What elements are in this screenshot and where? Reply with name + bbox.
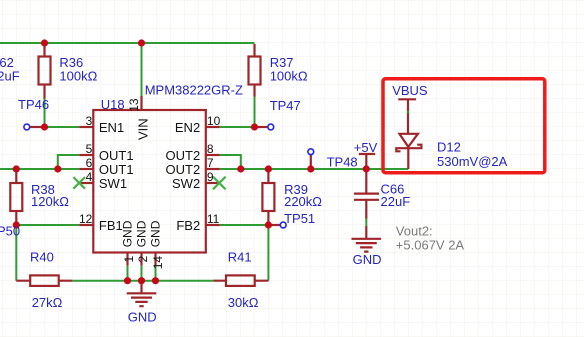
pin 1 GND (126, 253, 128, 266)
node TP46/EN1 (41, 123, 48, 130)
svg-text:10: 10 (207, 114, 221, 128)
resistor R38 (10, 169, 22, 225)
ground symbol IC GND (127, 281, 157, 307)
supply +5V symbol (359, 154, 375, 169)
svg-text:MPM38222GR-Z: MPM38222GR-Z (145, 82, 243, 97)
pin 7 OUT2 (206, 168, 220, 170)
svg-text:SW1: SW1 (99, 176, 127, 191)
svg-text:TP50: TP50 (0, 224, 20, 239)
pin 6 OUT1 (79, 168, 93, 170)
resistor R41 (213, 275, 268, 286)
resistor R39 (262, 169, 274, 225)
svg-text:GND: GND (353, 252, 382, 267)
pin 2 GND (140, 253, 142, 266)
test point TP47 (255, 126, 268, 128)
svg-text:22uF: 22uF (0, 69, 20, 84)
node GND pin14 (152, 277, 159, 284)
wire FB1 row (16, 224, 79, 226)
svg-text:12: 12 (79, 212, 93, 226)
node GND pin1 (124, 277, 131, 284)
svg-text:EN2: EN2 (175, 120, 200, 135)
node R38 top (13, 165, 20, 172)
svg-text:5: 5 (86, 142, 93, 156)
svg-text:+5V: +5V (354, 140, 378, 155)
svg-text:100kΩ: 100kΩ (270, 69, 308, 84)
svg-text:FB2: FB2 (176, 218, 200, 233)
pin 10 EN2 (206, 126, 220, 128)
svg-text:4: 4 (86, 170, 93, 184)
svg-text:22uF: 22uF (381, 194, 411, 209)
op IC U18 box (93, 110, 206, 253)
pin 14 GND (154, 253, 156, 266)
svg-text:R41: R41 (228, 250, 252, 265)
svg-text:3: 3 (86, 114, 93, 128)
wire R37 bottom to EN2 row (254, 97, 256, 128)
wire TP46 to EN1 (45, 126, 80, 128)
test point TP46 (30, 126, 45, 128)
wire EN2 to TP47 junction (220, 126, 255, 128)
node OUT2 loop (237, 165, 244, 172)
diode D12 schottky (396, 134, 421, 169)
svg-text:220kΩ: 220kΩ (284, 194, 322, 209)
capacitor C66 (354, 169, 379, 219)
svg-text:VIN: VIN (135, 118, 150, 140)
svg-text:530mV@2A: 530mV@2A (437, 154, 508, 169)
ground symbol C66 GND (352, 226, 382, 252)
supply VBUS symbol (398, 99, 416, 134)
wire C66 to GND (365, 219, 367, 227)
svg-text:GND: GND (135, 220, 149, 247)
wire R36 bottom to EN1 row (44, 99, 46, 128)
svg-text:7: 7 (207, 156, 214, 170)
pin 13 VIN (140, 96, 142, 110)
wire GND pin stubs green (128, 266, 156, 281)
svg-text:EN1: EN1 (99, 120, 124, 135)
wire VIN drop (141, 43, 143, 96)
svg-text:Vout2:: Vout2: (396, 223, 433, 238)
svg-text:GND: GND (149, 220, 163, 247)
svg-text:13: 13 (127, 98, 141, 112)
svg-text:OUT2: OUT2 (166, 148, 201, 163)
highlight box around D12 (383, 79, 545, 173)
pin 4 SW1 (79, 182, 93, 184)
svg-text:FB1: FB1 (99, 218, 123, 233)
node R39 bottom/TP51 (265, 221, 272, 228)
wire R39 bottom down (267, 225, 269, 281)
svg-text:VBUS: VBUS (392, 83, 428, 98)
svg-text:OUT1: OUT1 (99, 162, 134, 177)
svg-text:OUT2: OUT2 (166, 162, 201, 177)
svg-text:1: 1 (122, 256, 136, 263)
svg-text:11: 11 (207, 212, 220, 226)
node OUT1 loop (54, 165, 61, 172)
svg-text:14: 14 (151, 256, 165, 270)
test point TP48 (310, 155, 312, 169)
svg-text:R40: R40 (30, 250, 54, 265)
wire OUT2 pin8 loop (220, 155, 241, 169)
wire OUT1 pin5 loop (58, 155, 80, 169)
svg-text:30kΩ: 30kΩ (228, 295, 259, 310)
svg-text:U18: U18 (101, 97, 125, 112)
node +5V/C66 (363, 165, 370, 172)
svg-text:27kΩ: 27kΩ (32, 295, 63, 310)
resistor R36 (39, 43, 51, 99)
node VIN top (138, 39, 145, 46)
svg-text:GND: GND (121, 220, 135, 247)
svg-text:2: 2 (136, 256, 150, 263)
wire top rail +5V net (0, 42, 255, 44)
svg-text:OUT1: OUT1 (99, 148, 134, 163)
svg-text:+5.067V 2A: +5.067V 2A (396, 237, 465, 252)
svg-text:6: 6 (86, 156, 93, 170)
svg-text:TP47: TP47 (270, 98, 301, 113)
svg-text:TP48: TP48 (327, 154, 358, 169)
node TP48 (307, 165, 314, 172)
wire GND bus (72, 280, 213, 282)
pin 8 OUT2 (206, 154, 220, 156)
resistor R40 (16, 275, 72, 286)
node EN2/R37 (251, 123, 258, 130)
node R36 top (41, 39, 48, 46)
svg-text:TP46: TP46 (18, 97, 49, 112)
svg-text:TP51: TP51 (284, 211, 315, 226)
svg-text:D12: D12 (437, 139, 461, 154)
svg-text:GND: GND (128, 309, 157, 324)
svg-text:120kΩ: 120kΩ (31, 194, 69, 209)
pin 11 FB2 (206, 224, 220, 226)
test point TP51 (268, 224, 280, 226)
node GND pin2 (138, 277, 145, 284)
svg-text:100kΩ: 100kΩ (59, 69, 97, 84)
resistor R37 (249, 44, 261, 97)
wire R38 bottom down (15, 225, 17, 281)
svg-text:9: 9 (207, 170, 214, 184)
svg-text:SW2: SW2 (172, 176, 200, 191)
wire left rail FB net (0, 168, 79, 170)
pin 12 FB1 (79, 224, 93, 226)
pin 3 EN1 (79, 126, 93, 128)
svg-text:8: 8 (207, 142, 214, 156)
wire OUT2 rail to diode (220, 168, 408, 170)
node R38 bottom (13, 221, 20, 228)
wire FB2 row (220, 224, 269, 226)
node R39 top (265, 165, 272, 172)
pin 9 SW2 (206, 182, 220, 184)
node VBUS pin dot (407, 111, 410, 114)
no-connect X SW2 (213, 177, 226, 190)
pin 5 OUT1 (79, 154, 93, 156)
no-connect X SW1 (73, 177, 85, 189)
